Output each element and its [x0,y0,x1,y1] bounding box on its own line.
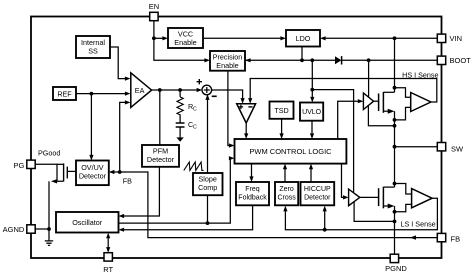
svg-text:Detector: Detector [79,172,107,181]
pin VIN [437,34,445,42]
node HS driver reference junction [393,124,397,128]
wire VCC Enable output to LDO left [203,36,286,40]
node LS drain sense tap junction [393,182,397,186]
wire VCC to LS driver power [312,90,353,193]
wire VCC branch down to UVLO [310,60,314,102]
block PWM CONTROL LOGIC [235,139,347,164]
pin RT [104,253,112,261]
wire PWM logic to LS driver [342,164,349,200]
label PG [13,161,24,170]
wire UVLO to PWM logic [310,121,314,139]
wire VCC rail: Precision Enable to BOOT pin [245,58,437,62]
node BOOT-HS-driver branch junction [367,58,371,62]
wire LS source sense tap to LS amp [395,204,412,211]
svg-text:EA: EA [135,86,145,95]
svg-text:VIN: VIN [450,34,463,43]
transistor LS FET [360,187,395,209]
wire PG pin to PGood FET drain [35,164,63,181]
svg-text:PGND: PGND [385,264,407,273]
wire EA output down to PFM Detector [159,90,161,145]
wire LS I Sense to Zero Cross and HICCUP [283,198,437,230]
svg-text:Oscillator: Oscillator [72,218,103,227]
node VCC-UVLO branch junction [310,58,314,62]
wire HS drain to VIN rail [394,38,396,92]
node slope comp oscillator junction [206,221,210,225]
ground below CC [176,137,183,141]
wire LDO bottom to VCC rail [301,47,303,61]
block Slope Comp [193,173,223,195]
node AGND junction [47,227,51,231]
node EA output to compensation junction [178,88,182,92]
block Precision Enable [210,51,245,71]
label LS I Sense [401,219,436,228]
label FB pin [451,234,461,243]
block TSD [270,102,294,119]
wire compensation branch down [179,90,181,137]
wire HS driver reference to source [368,105,394,126]
pin PG [27,160,35,168]
svg-text:Detector: Detector [304,195,331,202]
wire VIN pin to LDO right [320,36,437,40]
wire LS drain sense tap to LS amp [395,184,412,195]
capacitor CC [176,123,185,127]
block Zero Cross [275,182,298,205]
resistor RC [177,97,183,115]
svg-text:LS I Sense: LS I Sense [401,219,436,228]
buffer LS gate driver [349,189,360,206]
wire HICCUP bottom input [323,206,327,230]
pin SW [437,143,445,151]
wire EN junction to VCC Enable input [154,36,168,40]
svg-text:FB: FB [451,234,461,243]
svg-text:Zero: Zero [279,186,294,193]
label BOOT [450,56,472,65]
transistor HS FET [374,92,395,114]
block UVLO [300,103,323,121]
svg-text:Freq: Freq [245,186,260,193]
svg-text:TSD: TSD [274,106,288,115]
node LS driver reference junction [393,220,397,224]
svg-text:HICCUP: HICCUP [304,186,331,193]
svg-text:C: C [193,106,197,112]
svg-text:UVLO: UVLO [302,109,322,116]
svg-text:Comp: Comp [198,183,217,192]
wire Internal SS output to EA input 1 [110,47,131,81]
summing node [197,79,217,96]
wire summing node output to PWM comparator plus [212,90,245,104]
svg-text:SS: SS [88,47,98,56]
svg-text:C: C [193,125,197,131]
pin AGND [27,225,35,233]
wire Zero Cross output up to PWM logic [283,164,287,182]
wire LS source down to PGND [394,206,396,254]
label PGND [385,264,407,273]
pin FB [437,233,445,241]
sawtooth waveform icon [184,162,204,170]
pin EN [150,12,158,20]
wire PWM logic down to Freq Foldback [249,164,253,182]
wire PWM logic to HS driver [338,99,364,139]
wire PGood FET source to AGND [48,181,50,229]
wire LS driver reference to source [354,202,394,222]
svg-text:PG: PG [13,161,24,170]
label EN [149,2,159,11]
wire HS source sense tap to HS amp [395,107,411,120]
wire EA output to summing node [152,88,203,92]
wire FB up to EA input 3 [120,100,131,172]
wire LS drain to SW node [394,147,396,187]
diode D1 bootstrap [335,56,342,64]
svg-text:LDO: LDO [296,34,311,43]
svg-text:Detector: Detector [147,155,175,164]
svg-text:AGND: AGND [3,225,25,234]
block PFM Detector [142,145,179,167]
wire EN pin to enable blocks [154,21,206,61]
node HICCUP sense junction [323,228,327,232]
wire REF branch down to OV/UV Detector [89,94,93,161]
wire FB direction arrow [410,235,416,239]
label SW [451,145,464,154]
comparator PWM [237,104,256,123]
wire TSD to PWM logic [280,119,284,139]
op-amp HS current sense [411,93,431,112]
block Oscillator [56,212,119,233]
svg-text:RT: RT [103,265,113,274]
node FB junction [118,170,122,174]
svg-text:SW: SW [451,145,464,154]
label FB internal [123,176,132,185]
svg-text:REF: REF [57,90,72,99]
label AGND [3,225,25,234]
block HICCUP Detector [301,182,335,205]
wire Freq Foldback output to oscillator [119,205,253,231]
label PGood [38,148,60,157]
node VIN to HS drain junction [393,36,397,40]
wire HS drain sense tap to HS amp [395,88,411,98]
pin BOOT [437,56,445,64]
svg-text:EN: EN [149,2,159,11]
wire HS source down to SW [394,111,396,147]
node VCC-LS-driver branch junction [310,88,314,92]
svg-text:PWM CONTROL LOGIC: PWM CONTROL LOGIC [249,147,332,156]
label HS I Sense [402,70,438,79]
wire HICCUP output up to PWM logic [309,164,313,182]
node SW junction [393,145,397,149]
node EN branch junction [152,36,156,40]
label RT [103,265,113,274]
ground symbol AGND [45,229,53,245]
wire SW node to SW pin [395,146,438,148]
svg-text:HS I Sense: HS I Sense [402,70,438,79]
block VCC Enable [168,28,203,48]
label VIN [450,34,463,43]
node EA output to PFM junction [158,88,162,92]
wire arrow into Precision Enable left [204,58,210,62]
wire FB pin to error amp and OV/UV [109,170,437,238]
buffer HS gate driver [363,93,373,110]
svg-text:Cross: Cross [277,195,296,202]
node HS drain sense tap junction [393,86,397,90]
wire PFM Detector output to oscillator [119,167,160,218]
IC boundary rectangle [31,17,442,259]
wire RT pin to oscillator bidirectional [106,233,110,253]
wire oscillator output to slope comp and PWM logic [119,156,235,223]
wire AGND pin to ground [35,228,49,230]
wire slope comp bottom to oscillator line [207,195,209,223]
svg-text:Foldback: Foldback [238,195,267,202]
svg-text:Enable: Enable [216,61,238,70]
block OV/UV Detector [76,161,109,186]
svg-text:BOOT: BOOT [450,56,472,65]
svg-text:Enable: Enable [174,38,196,47]
node HS source sense tap junction [393,118,397,122]
block Freq Foldback [236,182,269,205]
wire HS I Sense to PWM comparator minus [248,79,437,104]
node LS source sense tap junction [393,210,397,214]
transistor PGood FET [57,163,67,181]
op-amp EA error amplifier [131,73,152,108]
label RC [188,102,197,113]
svg-text:FB: FB [123,176,132,185]
node LDO output junction [300,58,304,62]
block LDO [286,30,320,47]
block Internal SS [76,36,110,58]
pin PGND [390,254,398,262]
op-amp LS current sense [412,189,433,208]
block REF [53,87,76,100]
wire REF output to EA input 2 [76,92,131,96]
wire OV/UV gate drive to PGood FET [67,170,76,172]
label CC [188,120,197,131]
node REF branch junction [90,92,94,96]
pgood fet source arrow [51,179,57,183]
wire Precision Enable down to PWM logic [228,71,235,148]
wire PWM comparator output to PWM logic [244,123,248,139]
svg-text:PGood: PGood [38,148,60,157]
wire BOOT to HS driver power [368,60,370,96]
wire slope comp output up to summing node [205,94,209,173]
